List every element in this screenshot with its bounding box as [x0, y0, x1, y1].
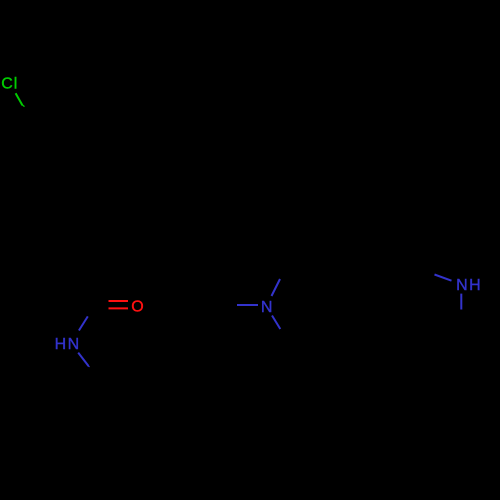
- bond N-C down (blue half, vertical): [460, 294, 462, 310]
- double bond C=O lower line (red half): [109, 307, 129, 309]
- atom label NH (pyrrolidine nitrogen): [456, 277, 482, 294]
- bond N-CH3 (blue half, down-right): [78, 353, 89, 367]
- atom label Cl (chlorine): [1, 75, 18, 92]
- atom label O (carbonyl oxygen): [131, 298, 143, 315]
- svg-text:N: N: [261, 299, 273, 316]
- bond N-C left (blue half, horizontal): [237, 304, 258, 306]
- svg-text:Cl: Cl: [1, 75, 18, 92]
- svg-text:O: O: [131, 298, 143, 315]
- bond Cl-C (green half): [16, 93, 25, 106]
- bond N-C(=O) (blue half, up-right): [79, 316, 88, 330]
- svg-text:HN: HN: [55, 336, 81, 353]
- svg-text:NH: NH: [456, 277, 482, 294]
- double bond C=O upper line (red half): [109, 300, 129, 302]
- bond N-C up-right (blue half): [272, 279, 281, 296]
- atom label N (piperidine nitrogen): [261, 299, 273, 316]
- bond N-C down-right (blue half): [272, 316, 280, 330]
- atom label HN (amide nitrogen): [55, 336, 81, 353]
- bond N-C up-left (blue half): [435, 275, 452, 281]
